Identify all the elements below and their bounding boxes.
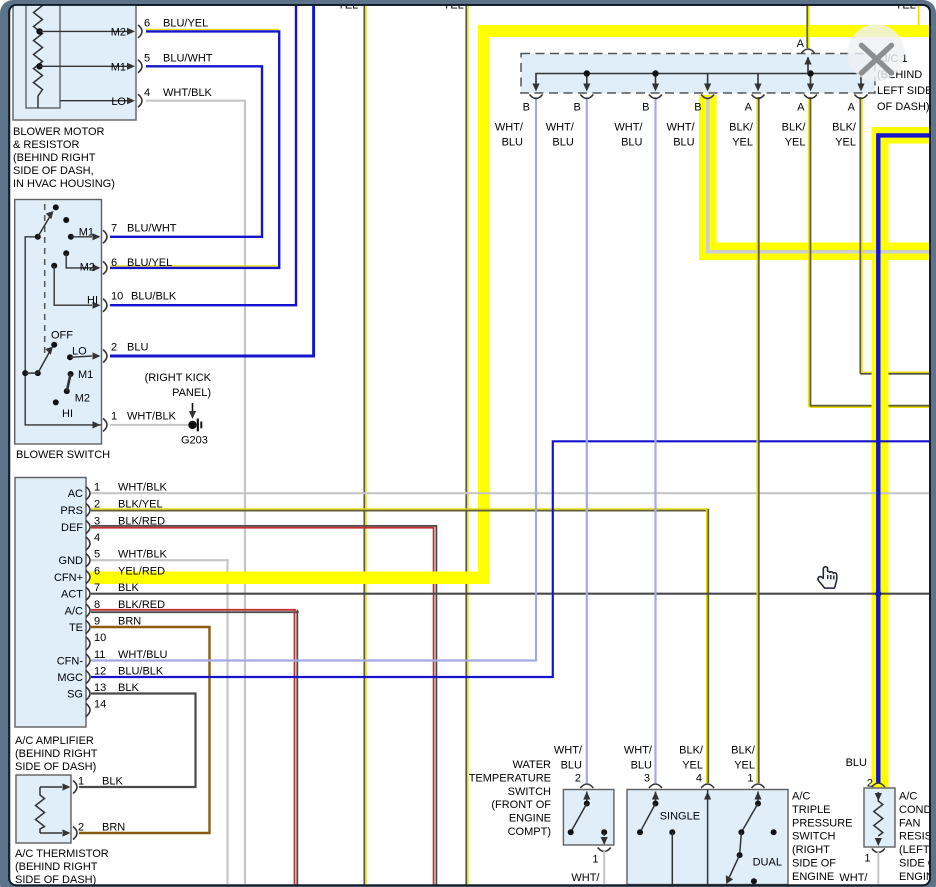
wire WHT/BLU from J/C 1 pin B3 to pressure switch pin 3	[654, 97, 656, 783]
resistor zigzag inside blower motor	[34, 2, 43, 108]
svg-text:TEMPERATURE: TEMPERATURE	[469, 772, 551, 784]
svg-text:M2: M2	[80, 262, 95, 274]
svg-text:M2: M2	[111, 27, 126, 39]
svg-text:A: A	[797, 38, 805, 50]
svg-text:TE: TE	[69, 622, 83, 634]
svg-text:WHT/: WHT/	[666, 122, 695, 134]
svg-text:LO: LO	[111, 96, 126, 108]
svg-text:8: 8	[94, 599, 100, 611]
A/C amplifier component box	[15, 478, 86, 728]
svg-text:WHT/: WHT/	[495, 122, 524, 134]
svg-text:DEF: DEF	[61, 522, 83, 534]
svg-text:A/C: A/C	[792, 791, 810, 803]
wire BLU/BLK from A/C amplifier pin 12 MGC (to right edge)	[91, 441, 930, 677]
svg-text:HI: HI	[87, 295, 98, 307]
wire BLK from A/C amplifier pin 7 ACT (horizontal to right edge)	[91, 593, 930, 595]
wire BRN from A/C amplifier pin 9 TE to A/C thermistor pin 2	[79, 627, 210, 833]
pressure switch centre divider / pin 4 conductor	[707, 790, 709, 885]
J/C 1 bus junction dots	[584, 70, 590, 76]
svg-text:TRIPLE: TRIPLE	[792, 804, 831, 816]
svg-text:1: 1	[111, 411, 117, 423]
svg-text:WHT/: WHT/	[624, 745, 653, 757]
svg-text:BLK/RED: BLK/RED	[118, 515, 165, 527]
pressure switch pin 1 entry and blades (DUAL)	[752, 784, 765, 788]
svg-text:1: 1	[94, 482, 100, 494]
svg-text:BLOWER SWITCH: BLOWER SWITCH	[16, 449, 110, 461]
svg-text:SIDE OF DASH): SIDE OF DASH)	[15, 761, 96, 773]
highlighted WHT/BLU trace from J/C 1 pin B4 (thick yellow)	[699, 95, 717, 260]
svg-text:BLU: BLU	[127, 342, 148, 354]
junction dot on resistor tap M2	[36, 28, 42, 34]
svg-text:BLU/WHT: BLU/WHT	[163, 52, 213, 64]
svg-text:BLU/WHT: BLU/WHT	[127, 223, 177, 235]
svg-text:LEFT SIDE: LEFT SIDE	[877, 85, 932, 97]
svg-text:SIDE OF DASH): SIDE OF DASH)	[15, 874, 96, 886]
wire BLK/YEL from J/C 1 pin A2 to right edge	[808, 97, 810, 407]
wire BLK/YEL full-height vertical (labeled YEL at top, x=467)	[465, 5, 467, 885]
svg-text:BLK/RED: BLK/RED	[118, 599, 165, 611]
blower switch dashed link between wafers	[44, 204, 46, 357]
svg-text:3: 3	[644, 773, 650, 785]
A/C amplifier connector sockets pins 1-14	[86, 487, 90, 500]
svg-text:A/C AMPLIFIER: A/C AMPLIFIER	[15, 735, 94, 747]
svg-text:1: 1	[592, 854, 598, 866]
thermistor resistor zigzag	[36, 787, 45, 833]
svg-text:13: 13	[94, 682, 106, 694]
svg-text:WHT/BLU: WHT/BLU	[118, 649, 168, 661]
svg-text:BLU: BLU	[552, 137, 573, 149]
svg-text:CFN+: CFN+	[54, 572, 83, 584]
blower switch upper wafer pivot and blade	[35, 234, 41, 240]
wire BLK from A/C amplifier pin 13 SG to A/C thermistor pin 1	[79, 694, 196, 788]
svg-text:OF DASH): OF DASH)	[877, 101, 930, 113]
svg-text:FAN: FAN	[899, 817, 920, 829]
wire BLU highlighted from right edge to A/C condenser fan resistor pin 2	[878, 135, 929, 783]
svg-text:YEL: YEL	[732, 137, 753, 149]
svg-text:6: 6	[94, 565, 100, 577]
svg-text:BRN: BRN	[102, 822, 125, 834]
wire WHT/BLU from J/C 1 pin B2 to water temp switch pin 2	[586, 97, 588, 783]
pressure switch pin 4 entry arrow	[701, 784, 714, 788]
junction dot on resistor tap M1	[36, 63, 42, 69]
blower motor inner frame	[26, 0, 60, 108]
svg-text:4: 4	[696, 773, 702, 785]
svg-text:3: 3	[94, 515, 100, 527]
close button (X) overlay	[848, 25, 905, 82]
blower switch upper contacts	[63, 217, 69, 223]
wire WHT/BLK from A/C amplifier pin 1 AC (horizontal to right edge)	[91, 492, 930, 494]
blower switch left bus	[25, 237, 101, 425]
svg-text:WATER: WATER	[513, 759, 552, 771]
svg-text:HI: HI	[62, 408, 73, 420]
svg-text:1: 1	[864, 853, 870, 865]
svg-text:G203: G203	[181, 435, 208, 447]
svg-text:7: 7	[94, 582, 100, 594]
svg-text:YEL: YEL	[785, 137, 806, 149]
condenser fan resistor pin 2 entry	[872, 783, 885, 787]
svg-text:M2: M2	[75, 393, 90, 405]
svg-text:BLK: BLK	[118, 682, 139, 694]
blower switch lower wafer OFF/LO/M1/M2/HI	[22, 370, 28, 376]
svg-text:4: 4	[94, 532, 100, 544]
svg-text:WHT/BLK: WHT/BLK	[127, 411, 177, 423]
svg-text:YEL: YEL	[682, 760, 703, 772]
A/C triple pressure switch component box	[627, 790, 788, 885]
wire BLK/YEL entering J/C 1 top pin A from top edge	[806, 5, 808, 48]
svg-text:BLK/: BLK/	[731, 745, 756, 757]
wire BLK/RED from A/C amplifier pin 8 A/C	[91, 609, 296, 611]
svg-text:BLU/BLK: BLU/BLK	[131, 291, 177, 303]
thermistor internal wires to pins	[40, 786, 62, 788]
svg-text:WHT/BLK: WHT/BLK	[118, 549, 168, 561]
water temp switch blade	[571, 804, 587, 833]
svg-text:BLK: BLK	[118, 582, 139, 594]
wire BLK/YEL full-height vertical (labeled YEL at top, x=365)	[363, 5, 365, 885]
svg-text:6: 6	[144, 18, 150, 30]
svg-text:WHT/BLK: WHT/BLK	[163, 87, 213, 99]
svg-text:& RESISTOR: & RESISTOR	[13, 139, 79, 151]
pressure switch pin 3 entry and blade (SINGLE)	[649, 784, 662, 788]
svg-text:BLK/: BLK/	[679, 745, 704, 757]
wire BLU/BLK from blower switch pin 10 up to top edge	[110, 5, 296, 305]
wire WHT/BLK from blower motor pin 4 (horizontal part)	[146, 100, 246, 102]
svg-text:A/C: A/C	[65, 605, 83, 617]
svg-text:AC: AC	[68, 488, 83, 500]
svg-text:12: 12	[94, 665, 106, 677]
svg-text:BLU: BLU	[673, 137, 694, 149]
J/C 1 internal bus	[536, 74, 861, 87]
svg-text:B: B	[694, 102, 701, 114]
svg-text:2: 2	[575, 773, 581, 785]
condenser fan resistor zigzag	[874, 792, 883, 836]
svg-text:(LEFT: (LEFT	[899, 844, 930, 856]
blower switch connector sockets	[103, 230, 107, 243]
pressure switch DUAL open contact	[771, 829, 777, 835]
wire WHT/BLK from blower motor pin 4 (vertical run x=245)	[244, 101, 246, 885]
water temperature switch component box	[563, 790, 614, 846]
svg-text:(RIGHT: (RIGHT	[792, 844, 830, 856]
svg-text:BLK/YEL: BLK/YEL	[118, 498, 163, 510]
wire BLK/RED from A/C amplifier pin 3 DEF (horizontal part)	[91, 525, 437, 527]
svg-text:M1: M1	[111, 61, 126, 73]
svg-text:M1: M1	[79, 227, 94, 239]
wire WHT/BLK from blower switch pin 1 to ground G203	[110, 424, 189, 426]
svg-text:BLU/YEL: BLU/YEL	[163, 18, 208, 30]
svg-text:PRESSURE: PRESSURE	[792, 817, 853, 829]
wire BLU/YEL from blower motor pin 6 to blower switch pin 6	[146, 29, 279, 31]
svg-text:10: 10	[94, 632, 106, 644]
junction connector J/C 1 (dashed box, behind left side of dash)	[521, 54, 875, 94]
svg-text:BRN: BRN	[118, 615, 141, 627]
svg-text:BLU: BLU	[502, 137, 523, 149]
ground G203 (right kick panel)	[188, 421, 196, 429]
svg-text:SIDE OF: SIDE OF	[792, 858, 836, 870]
wire BLK/RED from A/C amplifier pin 3 DEF (vertical run x=434)	[433, 528, 435, 885]
svg-text:GND: GND	[59, 555, 84, 567]
blower motor connector sockets	[138, 25, 142, 38]
wire YEL thin vertical at right (x=919)	[918, 5, 920, 25]
svg-text:WHT/: WHT/	[614, 122, 643, 134]
svg-text:B: B	[573, 102, 580, 114]
svg-text:A/C THERMISTOR: A/C THERMISTOR	[15, 848, 109, 860]
svg-text:A/C: A/C	[899, 791, 917, 803]
svg-text:2: 2	[867, 778, 873, 790]
svg-text:WHT/: WHT/	[546, 122, 575, 134]
J/C 1 bottom pin arrows and sockets	[532, 84, 539, 92]
svg-text:(BEHIND RIGHT: (BEHIND RIGHT	[15, 861, 98, 873]
svg-text:YEL: YEL	[835, 137, 856, 149]
svg-text:A: A	[745, 102, 753, 114]
svg-text:BLOWER MOTOR: BLOWER MOTOR	[13, 126, 105, 138]
svg-text:B: B	[523, 102, 530, 114]
water temp switch pin 2 entry	[580, 784, 593, 788]
svg-text:BLU: BLU	[846, 757, 867, 769]
svg-text:6: 6	[111, 257, 117, 269]
svg-text:IN HVAC HOUSING): IN HVAC HOUSING)	[13, 178, 115, 190]
svg-text:1: 1	[78, 776, 84, 788]
svg-text:DUAL: DUAL	[753, 857, 782, 869]
svg-text:ACT: ACT	[61, 589, 83, 601]
svg-text:SWITCH: SWITCH	[792, 831, 835, 843]
svg-text:WHT/: WHT/	[554, 745, 583, 757]
wire WHT/BLK from A/C amplifier pin 5 GND (vertical run x=227.5)	[226, 560, 228, 885]
svg-text:(BEHIND RIGHT: (BEHIND RIGHT	[13, 152, 96, 164]
svg-text:1: 1	[747, 773, 753, 785]
svg-text:PRS: PRS	[60, 505, 83, 517]
wire WHT/BLU from A/C amplifier pin 11 CFN- up to J/C 1 pin B1	[91, 97, 536, 661]
svg-text:(FRONT OF: (FRONT OF	[491, 799, 551, 811]
blower motor & resistor component box	[13, 0, 136, 120]
wire BLK/YEL from J/C 1 pin A3 (horizontal run to right edge)	[860, 371, 929, 373]
svg-text:BLU: BLU	[561, 760, 582, 772]
svg-text:CFN-: CFN-	[57, 655, 84, 667]
svg-text:SWITCH: SWITCH	[508, 786, 551, 798]
svg-text:BLK/: BLK/	[782, 122, 807, 134]
svg-text:2: 2	[111, 342, 117, 354]
mouse hand cursor	[818, 567, 837, 588]
svg-text:BLU: BLU	[631, 760, 652, 772]
svg-text:LO: LO	[72, 346, 87, 358]
wire BLK/YEL from J/C 1 pin A2 (horizontal run to right edge)	[810, 405, 930, 407]
wire BLK/YEL from A/C amplifier pin 2 PRS to pressure switch pin 4	[91, 508, 708, 510]
svg-text:BLK: BLK	[102, 776, 123, 788]
wire BLK/YEL from J/C 1 pin A3 to right edge	[859, 97, 861, 374]
junction where BLK wire crosses highlighted BLU wire	[875, 591, 881, 597]
svg-text:A: A	[797, 102, 805, 114]
svg-text:YEL: YEL	[734, 760, 755, 772]
wire BLK/YEL from J/C 1 pin A1 to pressure switch pin 1	[756, 97, 758, 783]
wire BLU/WHT from blower motor pin 5 to blower switch pin 7	[110, 66, 262, 237]
svg-text:5: 5	[144, 52, 150, 64]
svg-text:SINGLE: SINGLE	[660, 811, 700, 823]
svg-text:BLK/: BLK/	[832, 122, 857, 134]
highlighted BLU trace to A/C condenser fan resistor pin 2 (thick yellow)	[872, 127, 931, 144]
svg-text:ENGINE: ENGINE	[509, 813, 551, 825]
blower switch component box	[15, 200, 102, 445]
svg-text:BLU/YEL: BLU/YEL	[127, 257, 172, 269]
svg-text:BLK/: BLK/	[729, 122, 754, 134]
svg-text:BLU: BLU	[621, 137, 642, 149]
svg-text:11: 11	[94, 649, 105, 661]
svg-text:14: 14	[94, 698, 106, 710]
svg-text:B: B	[642, 102, 649, 114]
svg-text:2: 2	[78, 822, 84, 834]
wire WHT/... from water temp switch pin 1 down	[603, 851, 605, 885]
highlighted YEL/RED circuit trace from A/C amplifier pin 6 CFN+ (thick yellow)	[90, 572, 490, 585]
svg-text:SIDE OF DASH,: SIDE OF DASH,	[13, 165, 94, 177]
condenser fan resistor pin 1 exit	[875, 838, 882, 846]
svg-text:WHT/: WHT/	[571, 872, 600, 884]
svg-text:OFF: OFF	[51, 330, 73, 342]
svg-text:(RIGHT KICK: (RIGHT KICK	[145, 372, 212, 384]
blower motor internal wires to pins	[40, 30, 128, 32]
svg-text:MGC: MGC	[57, 672, 83, 684]
thermistor sockets	[73, 781, 77, 794]
svg-text:5: 5	[94, 549, 100, 561]
A/C thermistor component box	[16, 775, 71, 843]
wire WHT/... from condenser fan resistor pin 1 down	[877, 852, 879, 885]
wire WHT/BLK from A/C amplifier pin 5 GND (horizontal part)	[91, 559, 229, 561]
svg-text:WHT/BLK: WHT/BLK	[118, 482, 168, 494]
svg-text:7: 7	[111, 223, 117, 235]
wire WHT/BLU highlighted from J/C 1 pin B4 to right edge	[706, 97, 709, 254]
svg-text:PANEL): PANEL)	[172, 387, 211, 399]
svg-text:YEL/RED: YEL/RED	[118, 565, 165, 577]
svg-text:4: 4	[144, 87, 150, 99]
svg-text:2: 2	[94, 498, 100, 510]
J/C 1 top pin A entry	[807, 58, 809, 74]
pressure switch SINGLE contact with lead down	[669, 829, 675, 835]
svg-text:ENGINE: ENGINE	[792, 871, 834, 883]
A/C condenser fan resistor component box	[864, 788, 895, 847]
wire BLU from blower switch pin 2 up to top edge	[110, 5, 314, 356]
svg-text:(BEHIND RIGHT: (BEHIND RIGHT	[15, 748, 98, 760]
water temp switch open contact to pin 1	[601, 829, 607, 835]
svg-text:BLU/BLK: BLU/BLK	[118, 665, 164, 677]
svg-text:WHT/: WHT/	[839, 872, 868, 884]
svg-text:M1: M1	[78, 369, 93, 381]
svg-text:COMPT): COMPT)	[508, 826, 551, 838]
svg-text:9: 9	[94, 615, 100, 627]
svg-text:SG: SG	[67, 688, 83, 700]
svg-text:A: A	[848, 102, 856, 114]
svg-text:10: 10	[111, 291, 123, 303]
